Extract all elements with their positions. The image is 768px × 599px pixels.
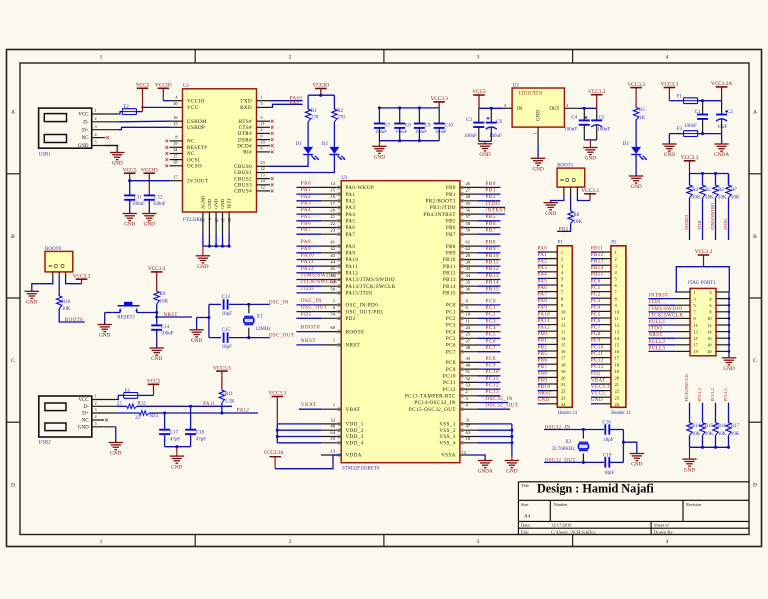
svg-text:OSC_IN: OSC_IN <box>301 298 322 304</box>
svg-text:PA5: PA5 <box>538 279 548 284</box>
svg-text:PB2: PB2 <box>538 345 548 350</box>
svg-text:VCCIO: VCCIO <box>187 98 205 104</box>
svg-text:25: 25 <box>201 218 206 222</box>
title block <box>518 481 749 483</box>
wire D- row <box>116 405 127 407</box>
svg-text:4: 4 <box>666 55 669 61</box>
svg-text:USBDP: USBDP <box>187 125 205 131</box>
svg-text:10: 10 <box>615 310 620 315</box>
svg-text:PC7: PC7 <box>591 326 601 331</box>
svg-text:2: 2 <box>95 116 97 121</box>
capacitor C7 100nF <box>378 106 381 109</box>
svg-text:PA1: PA1 <box>301 187 311 193</box>
svg-text:GND: GND <box>197 264 208 270</box>
wire R13 to PA12 <box>149 412 258 414</box>
capacitor C11 100nF <box>129 181 131 196</box>
svg-text:B: B <box>11 234 15 240</box>
svg-text:U1: U1 <box>183 84 190 89</box>
svg-text:VBAT: VBAT <box>591 378 606 383</box>
wire BOOT0 pin3 to VCC3.3 <box>66 279 82 284</box>
svg-text:10K: 10K <box>692 432 701 437</box>
GND symbol below D3 <box>629 175 643 177</box>
svg-text:PA7: PA7 <box>346 232 356 238</box>
svg-text:GND: GND <box>26 300 37 306</box>
wire F1 to VCC3.3A <box>698 100 722 102</box>
svg-text:VCC3.3: VCC3.3 <box>430 96 448 102</box>
svg-text:JTAG PORT1: JTAG PORT1 <box>688 281 717 286</box>
wire VCCIO to U1 <box>163 100 169 102</box>
svg-text:19: 19 <box>330 436 335 441</box>
P2 pin 10 PC4 <box>591 310 599 312</box>
wire BOOT0 pin1 to GND <box>32 279 53 292</box>
svg-text:PA11: PA11 <box>301 259 314 265</box>
svg-text:10uF: 10uF <box>717 125 728 130</box>
capacitor C13 18pF <box>223 299 225 309</box>
svg-text:C16: C16 <box>602 420 611 425</box>
svg-text:GND: GND <box>374 155 385 161</box>
svg-text:PC3: PC3 <box>486 318 496 324</box>
P2 pin 1 PB11 <box>591 251 599 253</box>
svg-text:PB14: PB14 <box>591 266 604 271</box>
svg-text:PB2: PB2 <box>559 227 569 232</box>
P2 pin 6 PC0 <box>591 284 599 286</box>
P2 pin 14 PC8 <box>591 337 599 339</box>
U3 BOOT0 pin <box>321 331 341 333</box>
svg-text:PB6: PB6 <box>486 221 496 227</box>
wire D1 to CBUS0 <box>270 155 308 167</box>
wire OSC32_IN <box>544 429 604 431</box>
svg-text:C17: C17 <box>170 431 179 436</box>
P2 pin 5 PB15 <box>591 277 599 279</box>
svg-text:VCC5: VCC5 <box>147 379 161 385</box>
svg-text:C12: C12 <box>154 195 163 200</box>
svg-text:24: 24 <box>466 325 471 330</box>
svg-text:Size: Size <box>521 502 528 507</box>
svg-text:C11: C11 <box>134 195 143 200</box>
svg-text:PD2: PD2 <box>346 316 356 322</box>
P1 pin 16 PB2 <box>538 350 546 352</box>
svg-text:10K: 10K <box>160 299 169 304</box>
svg-text:PC13-TAMPER-RTC: PC13-TAMPER-RTC <box>405 394 456 400</box>
svg-text:45: 45 <box>330 266 335 271</box>
svg-text:22: 22 <box>135 416 140 421</box>
svg-text:22: 22 <box>615 389 620 394</box>
svg-text:2: 2 <box>289 55 292 61</box>
svg-text:12: 12 <box>561 323 566 328</box>
svg-text:GND: GND <box>545 211 556 217</box>
P1 pin 3 PA2 <box>538 264 546 266</box>
P1 pin 1 PA0 <box>538 251 546 253</box>
P1 pin 5 PA4 <box>538 277 546 279</box>
svg-text:2: 2 <box>95 401 97 406</box>
svg-text:5: 5 <box>95 421 97 426</box>
svg-text:5: 5 <box>95 140 97 145</box>
svg-text:10K: 10K <box>705 196 714 201</box>
svg-text:VCC3.3: VCC3.3 <box>661 82 679 88</box>
svg-text:JTDI: JTDI <box>697 220 702 230</box>
svg-text:PB10: PB10 <box>443 257 456 263</box>
power VCC3.3 (regulator output) <box>591 94 603 96</box>
svg-text:X2: X2 <box>565 440 572 445</box>
svg-text:3: 3 <box>694 296 696 301</box>
svg-text:D-: D- <box>83 405 89 410</box>
net label NRST (reset node) <box>157 316 192 318</box>
svg-text:VDDA: VDDA <box>346 453 362 459</box>
svg-text:18: 18 <box>466 436 471 441</box>
svg-text:15: 15 <box>694 336 698 341</box>
svg-text:PB14: PB14 <box>486 280 500 286</box>
svg-text:PA3: PA3 <box>538 266 548 271</box>
GND symbol below RESET1 <box>98 324 112 326</box>
svg-text:Sheet of: Sheet of <box>654 523 669 528</box>
svg-text:F3: F3 <box>677 127 683 132</box>
JTAG pin row 1-2 <box>675 291 690 293</box>
GND symbol below U1 <box>202 246 204 256</box>
wire crystal left leg to GND <box>208 304 210 337</box>
power VCCIO (LED rail) <box>315 88 327 90</box>
svg-text:14: 14 <box>615 336 620 341</box>
svg-text:25: 25 <box>466 332 471 337</box>
svg-text:59: 59 <box>466 228 471 233</box>
svg-text:GND: GND <box>151 356 162 362</box>
svg-text:VCC3.3: VCC3.3 <box>213 365 231 371</box>
svg-text:PB8: PB8 <box>446 244 456 250</box>
P1 pin 19 PB7 <box>538 370 546 372</box>
svg-text:PC1: PC1 <box>446 309 456 315</box>
svg-text:10: 10 <box>466 312 471 317</box>
wire OSC32_OUT <box>544 461 604 463</box>
svg-text:22: 22 <box>261 166 265 171</box>
svg-text:52: 52 <box>466 376 471 381</box>
svg-text:PB15: PB15 <box>443 291 456 297</box>
svg-text:51: 51 <box>466 369 471 374</box>
svg-text:USB2: USB2 <box>39 441 52 446</box>
P1 pin 21 PB9 <box>538 383 546 385</box>
wire BOOT1 pin3 to VCC3.3 <box>577 196 590 200</box>
P2 pin 16 PC10 <box>591 350 599 352</box>
wire VCC5 to U2 IN <box>479 107 503 109</box>
svg-text:12/17/2016: 12/17/2016 <box>551 523 572 528</box>
svg-text:PC8: PC8 <box>591 332 601 337</box>
svg-text:18pF: 18pF <box>222 312 233 317</box>
svg-text:OSC_OUT/PD1: OSC_OUT/PD1 <box>346 309 384 315</box>
svg-text:NC: NC <box>187 139 195 145</box>
svg-text:VBAT: VBAT <box>301 402 317 408</box>
svg-text:AGND: AGND <box>201 195 206 209</box>
P2 pin 21 VBAT <box>591 383 599 385</box>
svg-text:PC6: PC6 <box>446 343 456 349</box>
svg-text:/NTRST: /NTRST <box>486 208 507 214</box>
svg-text:R9: R9 <box>160 292 166 297</box>
ferrite F1 <box>669 100 683 102</box>
svg-text:47: 47 <box>466 424 471 429</box>
svg-text:A: A <box>11 110 15 116</box>
svg-text:23: 23 <box>615 395 620 400</box>
wire pull-down bottom bus <box>690 446 729 448</box>
svg-text:26: 26 <box>227 218 232 222</box>
resistor R2 270 <box>332 109 337 122</box>
svg-text:PB2/BOOT1: PB2/BOOT1 <box>425 199 455 205</box>
svg-text:5: 5 <box>694 303 696 308</box>
svg-text:/NTRST: /NTRST <box>684 214 689 230</box>
svg-text:VCC5: VCC5 <box>123 167 137 173</box>
resistor R1 270 <box>305 109 310 122</box>
svg-text:PC5: PC5 <box>446 336 456 342</box>
svg-text:USBDM: USBDM <box>187 119 207 125</box>
net label PA9 (RXD) <box>270 104 303 107</box>
svg-text:1: 1 <box>561 250 563 255</box>
svg-text:PA5: PA5 <box>346 219 356 225</box>
power VCC3.3 (R9) <box>151 271 163 273</box>
power VCC3.3A <box>716 86 728 88</box>
svg-text:12MHz: 12MHz <box>255 327 271 332</box>
svg-text:PC0: PC0 <box>591 279 601 284</box>
svg-text:VCC3.3: VCC3.3 <box>581 188 599 194</box>
svg-text:OSC32_OUT: OSC32_OUT <box>545 458 576 463</box>
svg-text:32: 32 <box>330 417 335 422</box>
wire VCC to U1 <box>143 106 170 108</box>
wire OSC_IN (crystal) <box>209 303 221 305</box>
svg-text:11: 11 <box>466 318 471 323</box>
svg-text:R14: R14 <box>692 424 701 429</box>
svg-text:PC6: PC6 <box>591 319 601 324</box>
svg-text:PC1: PC1 <box>486 305 496 311</box>
U3 VSSA pin <box>460 454 470 456</box>
no-connect marks U1 left pins <box>165 140 168 143</box>
svg-text:OSC32_IN: OSC32_IN <box>486 396 513 402</box>
U3 VDD pins <box>321 423 341 425</box>
svg-text:2: 2 <box>566 103 568 108</box>
svg-text:GND: GND <box>191 338 202 344</box>
svg-text:JTDO: JTDO <box>486 201 501 207</box>
capacitor C16 18pF <box>604 424 606 434</box>
GND symbol below C11 <box>123 213 137 215</box>
capacitor C1 100nF <box>702 101 704 115</box>
svg-text:60: 60 <box>330 325 335 330</box>
svg-text:9: 9 <box>694 316 696 321</box>
svg-text:10K: 10K <box>731 432 740 437</box>
svg-text:VCC: VCC <box>187 105 199 111</box>
wire U2 OUT rail <box>580 107 597 109</box>
GND symbol below USB2 pin5 <box>115 427 117 443</box>
power VCC5 (USB1/FT232 VCC) <box>137 87 149 89</box>
svg-text:PB11: PB11 <box>486 260 499 266</box>
svg-text:GND: GND <box>585 156 596 162</box>
P1 pin 10 PA9 <box>538 310 546 312</box>
svg-text:21: 21 <box>330 214 335 219</box>
GND symbol below C3 C6 <box>484 141 486 144</box>
svg-text:R11: R11 <box>225 392 234 397</box>
power VCCIO (C12 rail) <box>144 172 156 174</box>
svg-text:PC8: PC8 <box>446 360 456 366</box>
svg-text:PC5: PC5 <box>486 332 496 338</box>
svg-text:C3: C3 <box>466 118 472 123</box>
svg-text:STM32F105RET6: STM32F105RET6 <box>342 467 380 472</box>
svg-text:P2: P2 <box>611 241 617 246</box>
capacitor C18 47pF <box>190 406 192 429</box>
svg-text:1: 1 <box>95 394 97 399</box>
svg-text:PA0: PA0 <box>538 246 548 251</box>
svg-text:35: 35 <box>466 280 471 285</box>
svg-text:PB13: PB13 <box>486 273 500 279</box>
svg-text:JTDO: JTDO <box>723 218 728 230</box>
P1 pin 7 PA6 <box>538 291 546 293</box>
svg-text:VCC5: VCC5 <box>136 83 150 89</box>
GND symbol below cap bank <box>378 141 380 147</box>
fuse F4 <box>116 395 124 399</box>
svg-text:NC: NC <box>82 419 90 424</box>
JTAG pin row 19-20 <box>675 350 690 352</box>
svg-text:F1: F1 <box>677 95 683 100</box>
svg-text:47pF: 47pF <box>170 438 181 443</box>
fuse F2 <box>118 112 122 114</box>
svg-text:R16: R16 <box>718 424 727 429</box>
svg-text:PC14-OSC32_IN: PC14-OSC32_IN <box>414 400 455 406</box>
P2 pin 13 PC7 <box>591 330 599 332</box>
svg-text:PA12: PA12 <box>237 409 250 414</box>
svg-text:4: 4 <box>666 539 669 545</box>
P1 pin 15 PB1 <box>538 343 546 345</box>
svg-text:JTDO: JTDO <box>649 327 663 332</box>
svg-text:VCC3.3: VCC3.3 <box>695 249 713 255</box>
svg-text:2: 2 <box>709 290 711 295</box>
svg-text:11: 11 <box>261 121 265 126</box>
svg-text:100nF: 100nF <box>435 129 447 134</box>
svg-text:PA6: PA6 <box>538 286 548 291</box>
svg-text:33: 33 <box>466 266 471 271</box>
svg-text:U2: U2 <box>513 83 520 88</box>
P1 pin 11 PA10 <box>538 317 546 319</box>
svg-text:23: 23 <box>261 160 265 165</box>
P2 pin 20 PD2 <box>591 376 599 378</box>
svg-text:PA8: PA8 <box>346 244 356 250</box>
P2 pin 22 VCC3.3 <box>591 390 599 392</box>
svg-text:PB12: PB12 <box>591 253 604 258</box>
svg-text:JTMS/SWDIO: JTMS/SWDIO <box>301 273 337 279</box>
U3 PB8-PB15 pins <box>460 245 478 247</box>
wire C3 C6 gnd bus <box>479 140 492 142</box>
svg-text:15: 15 <box>615 343 620 348</box>
push button RESET1 <box>105 312 121 314</box>
svg-text:1K: 1K <box>639 116 646 121</box>
wire OSC_OUT (crystal) <box>209 337 221 339</box>
svg-text:PB13: PB13 <box>591 260 604 265</box>
svg-text:C13: C13 <box>222 295 231 300</box>
svg-text:54: 54 <box>330 312 335 317</box>
svg-text:PA0: PA0 <box>301 180 311 186</box>
svg-text:PC2: PC2 <box>486 312 496 318</box>
svg-text:Revision: Revision <box>686 502 702 507</box>
svg-text:P1: P1 <box>558 241 564 246</box>
svg-text:16: 16 <box>561 349 566 354</box>
JTAG pin row 9-10 <box>675 317 690 319</box>
wire R12 to PA11 <box>137 405 232 407</box>
svg-text:PC9: PC9 <box>591 339 601 344</box>
U3 PC0-PC7 pins <box>460 304 478 306</box>
P1 pin 6 PA5 <box>538 284 546 286</box>
svg-text:GND: GND <box>631 462 642 468</box>
svg-text:PD2: PD2 <box>591 372 601 377</box>
svg-text:PA2: PA2 <box>346 199 356 205</box>
svg-text:C6: C6 <box>496 120 502 125</box>
GND symbol below C4 C5 <box>589 140 591 148</box>
svg-text:PB0: PB0 <box>446 185 456 191</box>
svg-text:PA6: PA6 <box>346 225 356 231</box>
svg-text:PB11: PB11 <box>591 246 604 251</box>
svg-text:R10: R10 <box>62 300 71 305</box>
resistor R11 1.5K <box>219 390 224 403</box>
wire USBDP <box>118 127 169 129</box>
svg-text:NC: NC <box>82 136 90 141</box>
svg-text:CBUS2: CBUS2 <box>234 176 252 182</box>
svg-text:GND: GND <box>144 222 155 228</box>
svg-text:PB1: PB1 <box>538 339 548 344</box>
svg-text:13: 13 <box>330 448 335 453</box>
svg-text:20: 20 <box>330 208 335 213</box>
svg-text:VDD_2: VDD_2 <box>346 428 364 434</box>
GND symbol left of BOOT0 <box>25 290 39 292</box>
svg-text:PA10: PA10 <box>346 257 359 263</box>
svg-text:JTCK/SWCLK: JTCK/SWCLK <box>301 279 338 285</box>
svg-text:Design : Hamid Najafi: Design : Hamid Najafi <box>537 481 654 495</box>
svg-text:100uF: 100uF <box>597 128 610 133</box>
resistor R3 1K <box>633 108 638 121</box>
GND symbol below USB1 pin5 <box>105 146 117 153</box>
svg-text:100nF: 100nF <box>684 124 697 129</box>
P2 pin 3 PB13 <box>591 264 599 266</box>
svg-text:PA10: PA10 <box>538 312 551 317</box>
svg-text:20: 20 <box>707 349 711 354</box>
svg-text:PB11: PB11 <box>443 264 456 270</box>
svg-text:OSC_OUT: OSC_OUT <box>269 334 294 339</box>
svg-text:100nF: 100nF <box>395 129 407 134</box>
svg-text:PULL3: PULL3 <box>697 387 702 401</box>
svg-text:GND: GND <box>112 161 123 167</box>
svg-text:PA11: PA11 <box>203 402 215 407</box>
wire R1 to D1 <box>307 122 309 147</box>
svg-text:X1: X1 <box>256 314 263 319</box>
svg-text:56: 56 <box>466 208 471 213</box>
svg-text:100nF: 100nF <box>564 128 577 133</box>
svg-text:100nF: 100nF <box>153 202 166 207</box>
svg-text:21: 21 <box>561 382 566 387</box>
svg-text:53: 53 <box>466 383 471 388</box>
svg-text:1.5K: 1.5K <box>225 400 235 405</box>
svg-text:18pF: 18pF <box>603 438 614 443</box>
power VCC3.3 (R11) <box>216 370 228 372</box>
svg-text:PA7: PA7 <box>301 227 311 233</box>
svg-text:RESET#: RESET# <box>187 145 207 151</box>
capacitor C4 100nF <box>583 108 585 120</box>
capacitor C15 18pF <box>223 332 225 342</box>
svg-text:24: 24 <box>561 402 566 407</box>
svg-text:20: 20 <box>173 101 177 106</box>
svg-text:R4: R4 <box>692 188 698 193</box>
svg-text:PC5: PC5 <box>591 312 601 317</box>
svg-text:41: 41 <box>330 240 335 245</box>
power VCC3.3 (cap bank) <box>433 101 445 103</box>
svg-text:CBUS4: CBUS4 <box>234 189 252 195</box>
svg-text:PC11: PC11 <box>591 352 604 357</box>
svg-text:TEST: TEST <box>227 198 232 209</box>
U3 PC13 PC14 PC15 pins <box>460 395 478 397</box>
svg-text:D1: D1 <box>296 142 303 147</box>
svg-text:PA1: PA1 <box>538 253 548 258</box>
svg-text:PA4: PA4 <box>538 273 548 278</box>
svg-text:FT232RL: FT232RL <box>183 218 203 223</box>
svg-text:PC2: PC2 <box>591 293 601 298</box>
capacitor C2 10uF electrolytic <box>721 101 723 115</box>
